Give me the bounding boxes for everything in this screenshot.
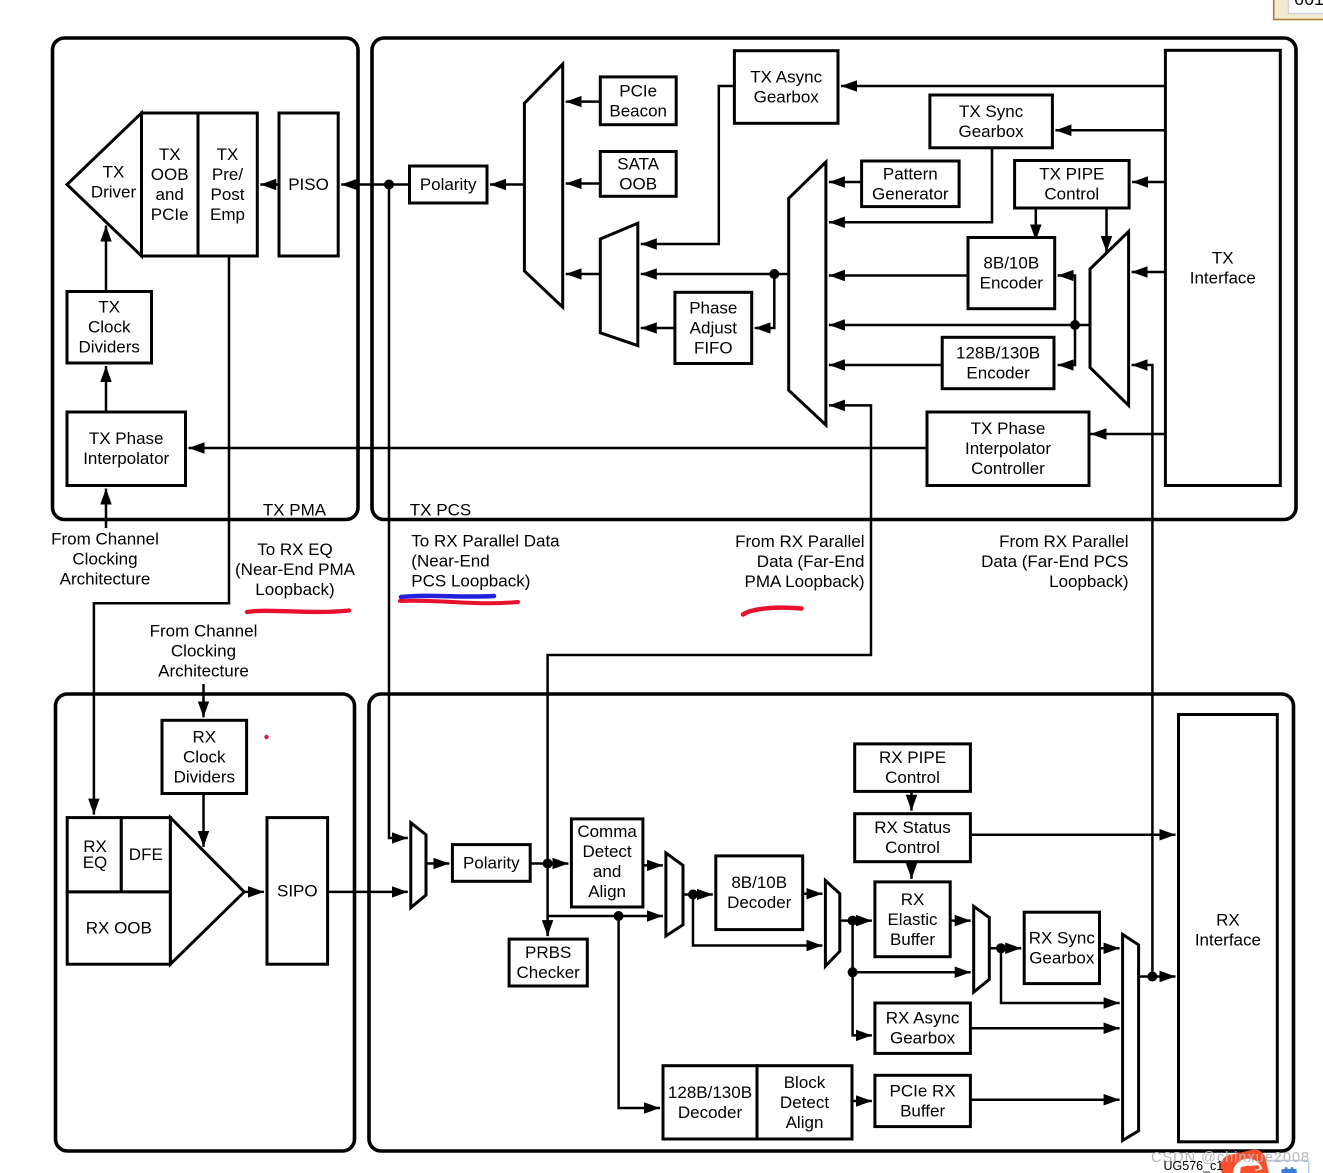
svg-text:Architecture: Architecture [158, 662, 249, 681]
svg-text:To RX Parallel Data: To RX Parallel Data [411, 532, 560, 551]
svg-text:Interpolator: Interpolator [965, 439, 1051, 458]
svg-text:Gearbox: Gearbox [1029, 948, 1095, 967]
svg-text:Beacon: Beacon [609, 101, 667, 120]
svg-text:128B/130B: 128B/130B [668, 1083, 752, 1102]
svg-text:SIPO: SIPO [277, 881, 318, 900]
svg-text:Clock: Clock [183, 747, 226, 766]
svg-text:Clocking: Clocking [171, 642, 236, 661]
svg-text:Interpolator: Interpolator [83, 449, 169, 468]
svg-text:EQ: EQ [83, 853, 108, 872]
svg-text:Polarity: Polarity [420, 175, 477, 194]
svg-text:Buffer: Buffer [900, 1101, 945, 1120]
svg-text:TX: TX [103, 163, 125, 182]
svg-text:Data (Far-End PCS: Data (Far-End PCS [981, 552, 1128, 571]
svg-text:TX Sync: TX Sync [959, 102, 1024, 121]
svg-text:OOB: OOB [619, 174, 657, 193]
svg-text:Driver: Driver [91, 183, 137, 202]
svg-text:Control: Control [885, 768, 940, 787]
svg-text:Pattern: Pattern [883, 164, 938, 183]
svg-text:Loopback): Loopback) [1049, 572, 1128, 591]
svg-text:PRBS: PRBS [525, 943, 571, 962]
svg-text:TX: TX [98, 298, 120, 317]
svg-text:Detect: Detect [583, 842, 632, 861]
svg-text:To RX EQ: To RX EQ [257, 540, 333, 559]
svg-text:Adjust: Adjust [690, 318, 738, 337]
svg-text:DFE: DFE [129, 845, 163, 864]
svg-text:FIFO: FIFO [694, 338, 733, 357]
svg-text:Generator: Generator [872, 184, 949, 203]
svg-text:Architecture: Architecture [60, 570, 151, 589]
svg-text:RX: RX [901, 890, 925, 909]
svg-text:661: 661 [1294, 0, 1323, 9]
svg-text:From Channel: From Channel [51, 530, 159, 549]
svg-text:RX: RX [192, 727, 216, 746]
svg-text:TX PCS: TX PCS [410, 501, 471, 520]
svg-text:Align: Align [786, 1113, 824, 1132]
svg-text:PCS Loopback): PCS Loopback) [411, 572, 530, 591]
svg-text:Loopback): Loopback) [255, 580, 334, 599]
svg-text:128B/130B: 128B/130B [956, 344, 1040, 363]
svg-text:8B/10B: 8B/10B [983, 254, 1039, 273]
svg-text:Elastic: Elastic [887, 910, 938, 929]
svg-text:Gearbox: Gearbox [958, 122, 1024, 141]
svg-text:From RX Parallel: From RX Parallel [999, 532, 1128, 551]
svg-text:and: and [156, 185, 184, 204]
svg-text:Decoder: Decoder [678, 1103, 743, 1122]
svg-text:RX Async: RX Async [886, 1009, 960, 1028]
svg-text:and: and [593, 862, 621, 881]
svg-text:TX Phase: TX Phase [89, 429, 164, 448]
svg-text:From Channel: From Channel [150, 622, 258, 641]
svg-text:TX: TX [1212, 248, 1234, 267]
svg-text:Gearbox: Gearbox [754, 88, 820, 107]
svg-text:TX PMA: TX PMA [263, 501, 327, 520]
svg-text:RX: RX [1216, 911, 1240, 930]
svg-text:Pre/: Pre/ [212, 165, 243, 184]
svg-text:RX OOB: RX OOB [86, 919, 152, 938]
svg-text:Data (Far-End: Data (Far-End [757, 552, 865, 571]
svg-text:TX: TX [159, 145, 181, 164]
svg-text:Control: Control [1044, 185, 1099, 204]
svg-text:Controller: Controller [971, 459, 1045, 478]
svg-text:TX Phase: TX Phase [971, 419, 1046, 438]
svg-text:Control: Control [885, 838, 940, 857]
svg-text:(Near-End: (Near-End [411, 552, 489, 571]
svg-text:Buffer: Buffer [890, 930, 935, 949]
svg-text:RX Status: RX Status [874, 818, 951, 837]
svg-text:Comma: Comma [577, 822, 637, 841]
svg-text:Checker: Checker [517, 963, 581, 982]
svg-text:PCIe: PCIe [619, 81, 657, 100]
svg-text:From RX Parallel: From RX Parallel [735, 532, 864, 551]
svg-text:Polarity: Polarity [463, 854, 520, 873]
svg-text:Gearbox: Gearbox [890, 1029, 956, 1048]
svg-text:PCIe: PCIe [151, 205, 189, 224]
svg-text:OOB: OOB [151, 165, 189, 184]
svg-text:Encoder: Encoder [980, 274, 1044, 293]
svg-text:Encoder: Encoder [966, 364, 1030, 383]
svg-text:Align: Align [588, 882, 626, 901]
svg-text:TX Async: TX Async [750, 68, 822, 87]
svg-text:Post: Post [210, 185, 244, 204]
svg-text:PMA Loopback): PMA Loopback) [744, 572, 864, 591]
svg-text:Interface: Interface [1195, 931, 1261, 950]
svg-text:PCIe RX: PCIe RX [890, 1081, 956, 1100]
svg-text:RX PIPE: RX PIPE [879, 748, 946, 767]
svg-text:8B/10B: 8B/10B [731, 873, 787, 892]
svg-text:Detect: Detect [780, 1093, 829, 1112]
svg-text:PISO: PISO [288, 175, 329, 194]
svg-text:Dividers: Dividers [174, 767, 235, 786]
svg-text:Clock: Clock [88, 318, 131, 337]
svg-text:UG576_c1: UG576_c1 [1164, 1159, 1224, 1173]
svg-text:(Near-End PMA: (Near-End PMA [235, 560, 356, 579]
svg-text:Block: Block [784, 1073, 826, 1092]
svg-text:TX: TX [217, 145, 239, 164]
svg-text:RX Sync: RX Sync [1029, 928, 1096, 947]
svg-text:Decoder: Decoder [727, 893, 792, 912]
svg-text:Clocking: Clocking [72, 550, 137, 569]
svg-text:Emp: Emp [210, 205, 245, 224]
svg-text:TX PIPE: TX PIPE [1039, 165, 1104, 184]
svg-text:Interface: Interface [1190, 268, 1256, 287]
svg-text:Phase: Phase [689, 298, 737, 317]
svg-text:SATA: SATA [617, 154, 660, 173]
svg-text:Dividers: Dividers [78, 338, 139, 357]
